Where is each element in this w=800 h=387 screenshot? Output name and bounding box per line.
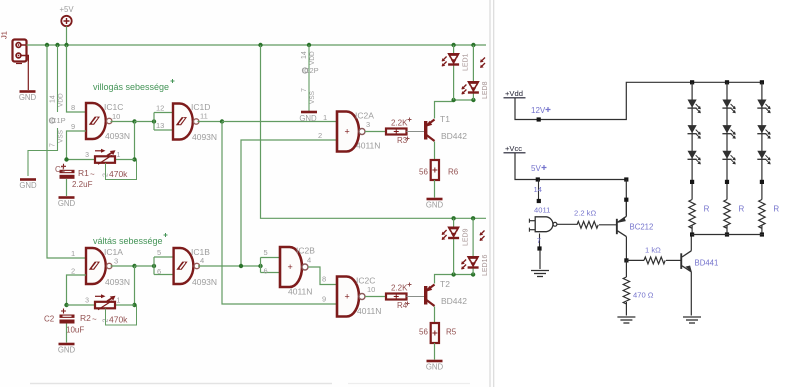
power +5V symbol xyxy=(59,5,74,26)
svg-text:4093N: 4093N xyxy=(105,131,130,141)
wiper connection R1 xyxy=(106,160,137,180)
svg-text:2.2K: 2.2K xyxy=(391,119,408,128)
svg-text:2.2K: 2.2K xyxy=(391,284,408,293)
junction LED16 bottom xyxy=(471,272,475,276)
ground right-panel gate xyxy=(531,271,549,277)
resistor R col3 xyxy=(759,200,765,229)
svg-text:12V: 12V xyxy=(531,106,546,115)
IC1B name xyxy=(191,247,210,257)
svg-text:2: 2 xyxy=(71,267,75,276)
resistor R3 2.2K xyxy=(386,129,407,135)
pin number 3 IC1A xyxy=(114,257,118,266)
svg-text:470 Ω: 470 Ω xyxy=(633,291,654,300)
LED LED8 xyxy=(462,81,490,99)
wire IC1D output xyxy=(198,121,223,123)
terminal 12V xyxy=(537,117,541,121)
pot pin 2 label xyxy=(103,173,110,177)
svg-text:11: 11 xyxy=(200,112,208,121)
ground 470 xyxy=(617,317,635,323)
junction IC1D in xyxy=(152,119,156,123)
terminal LED col2 mid xyxy=(725,180,729,184)
pot R2 pin 1 label xyxy=(117,298,121,305)
connector J1 xyxy=(0,31,28,63)
svg-text:6: 6 xyxy=(157,267,161,276)
svg-text:56: 56 xyxy=(419,328,428,337)
IC1A part value 4093N xyxy=(105,277,130,287)
label 470 Ohm xyxy=(633,291,654,300)
T1 value BD442 xyxy=(441,131,467,141)
pin number 2 IC2A xyxy=(318,131,322,140)
wire Vdd xyxy=(515,82,764,119)
wire BC212 collector down xyxy=(625,237,627,261)
wire top +5V bus xyxy=(27,44,487,46)
wire node to R1 left xyxy=(67,159,96,161)
svg-text:1: 1 xyxy=(117,298,121,305)
resistor 470 zigzag xyxy=(623,277,629,304)
svg-text:+: + xyxy=(288,262,293,272)
junction bus-railA xyxy=(45,43,49,47)
svg-text:4011N: 4011N xyxy=(356,141,380,151)
junction bus-LED8 xyxy=(471,43,475,47)
T1 name xyxy=(440,114,450,124)
LED LED9 xyxy=(442,227,470,246)
C2 name xyxy=(44,315,55,324)
svg-text:1: 1 xyxy=(323,113,327,122)
junction bus-LEDfeed xyxy=(258,43,262,47)
svg-text:IC2C: IC2C xyxy=(356,276,375,286)
svg-text:IC2A: IC2A xyxy=(355,111,374,121)
wire IC1C out to IC1D inputs xyxy=(135,121,155,123)
svg-text:R6: R6 xyxy=(448,168,459,177)
pin number 8 IC2C xyxy=(322,275,326,284)
label 4011 xyxy=(534,206,550,215)
svg-text:7: 7 xyxy=(537,236,541,245)
svg-text:14: 14 xyxy=(534,185,542,194)
resistor 2.2k zigzag xyxy=(577,221,598,228)
resistor R col1 xyxy=(689,200,695,229)
svg-text:4093N: 4093N xyxy=(192,132,217,142)
IC1P VSS pin wire xyxy=(28,128,58,176)
wire IC1C out down to R1 xyxy=(134,122,136,160)
pin number 4 IC2B xyxy=(307,256,311,265)
svg-text:R3: R3 xyxy=(397,136,408,145)
svg-text:4: 4 xyxy=(307,256,311,265)
LED D5 xyxy=(722,125,735,139)
wire Vcc to BC212 emitter xyxy=(625,180,627,216)
svg-text:T1: T1 xyxy=(440,114,450,124)
svg-text:9: 9 xyxy=(71,122,75,131)
svg-text:7: 7 xyxy=(50,143,57,147)
svg-text:5: 5 xyxy=(157,248,161,257)
svg-text:IC2P: IC2P xyxy=(302,66,319,75)
wire rail +5V to IC1A pin1 xyxy=(47,45,86,258)
svg-text:1: 1 xyxy=(117,152,121,159)
junction collector node xyxy=(624,258,628,262)
T2 value BD442 xyxy=(441,296,467,306)
svg-text:váltás sebessége: váltás sebessége xyxy=(93,236,163,246)
wire R col2 to bus xyxy=(726,225,728,234)
pin number 5 IC1B xyxy=(157,248,161,257)
IC1P label xyxy=(49,116,66,125)
wire R5 to ground xyxy=(434,343,436,360)
wire IC1A output xyxy=(111,265,135,267)
terminal LED col1 mid xyxy=(690,180,694,184)
junction IC1B in xyxy=(152,264,156,268)
junction R1 right xyxy=(132,157,136,161)
wire Vcc xyxy=(515,153,626,180)
potentiometer R2 470k xyxy=(95,294,116,310)
pin number 1 IC2A xyxy=(323,113,327,122)
LED D7 xyxy=(757,100,770,114)
wire IC1A out to IC1B inputs xyxy=(135,265,155,267)
pin number 10 xyxy=(112,112,120,121)
svg-text:BC212: BC212 xyxy=(630,223,654,232)
wire R col3 to bus xyxy=(761,225,763,234)
ground GND C2 xyxy=(58,344,76,355)
R6 name xyxy=(448,168,459,177)
transistor BC212 xyxy=(616,216,627,236)
svg-text:4: 4 xyxy=(200,256,204,265)
svg-text:8: 8 xyxy=(322,275,326,284)
svg-text:VDD: VDD xyxy=(309,51,316,65)
wire LED column 1 xyxy=(691,82,693,199)
LED D9 xyxy=(757,151,770,165)
R3 name xyxy=(397,136,410,145)
IC2A name xyxy=(355,111,374,121)
transistor T1 BD442 xyxy=(424,120,435,142)
pin number 9 IC2C xyxy=(322,295,326,304)
IC1A name xyxy=(104,247,123,257)
pot pin 3 label xyxy=(85,152,89,159)
wire BD441 emitter to ground xyxy=(690,272,692,316)
svg-text:4093N: 4093N xyxy=(105,277,130,287)
C1 value 2.2uF xyxy=(72,180,93,189)
wire LED8 column xyxy=(472,45,474,100)
wire node to R2 left xyxy=(67,304,96,306)
wire bus down to lower LED bus xyxy=(261,45,487,218)
svg-text:13: 13 xyxy=(156,121,164,130)
svg-text:LED16: LED16 xyxy=(482,254,489,276)
svg-text:GND: GND xyxy=(19,181,37,190)
junction LED16 top xyxy=(471,216,475,220)
junction LED9 top xyxy=(451,216,455,220)
svg-text:470k: 470k xyxy=(109,315,128,325)
pin 14 VDD labels IC2P xyxy=(301,51,316,65)
LED D2 xyxy=(688,125,701,139)
wire BD441 collector up xyxy=(690,235,692,251)
wire IC2A output to R3 xyxy=(365,131,386,133)
svg-text:+5V: +5V xyxy=(59,5,74,14)
svg-text:2.2 kΩ: 2.2 kΩ xyxy=(574,209,596,218)
svg-text:C1: C1 xyxy=(55,165,66,174)
svg-text:IC1A: IC1A xyxy=(104,247,123,257)
pin number 5 IC2B xyxy=(264,248,268,257)
wire IC1D out down to IC2C pin9 xyxy=(222,122,337,305)
pin number 10 IC2C xyxy=(367,285,375,294)
LED D6 xyxy=(722,151,735,165)
capacitor C2 10uF xyxy=(60,309,75,324)
svg-text:3: 3 xyxy=(85,152,89,159)
svg-text:R: R xyxy=(704,205,710,214)
transistor BD441 xyxy=(680,251,692,272)
pin number 1 IC1A xyxy=(71,249,75,258)
svg-text:1: 1 xyxy=(71,249,75,258)
svg-text:GND: GND xyxy=(426,201,444,210)
wire to BC212 base xyxy=(599,224,616,226)
junction LED8 bottom xyxy=(471,98,475,102)
svg-text:9: 9 xyxy=(322,295,326,304)
IC2C name xyxy=(356,276,375,286)
pot R2 pin 2 label xyxy=(103,319,110,323)
wire IC2B output to IC2C pin8 xyxy=(308,267,337,285)
net label villogas sebessege xyxy=(93,79,175,92)
wire gate output xyxy=(557,224,577,225)
pin number 8 xyxy=(71,103,75,112)
ground GND J1 xyxy=(19,92,37,103)
pin number 9 xyxy=(71,122,75,131)
svg-text:T2: T2 xyxy=(440,279,450,289)
svg-text:VSS: VSS xyxy=(309,90,316,104)
pin number 3 IC2A xyxy=(366,120,370,129)
panel divider xyxy=(490,0,494,387)
svg-text:+: + xyxy=(345,127,350,137)
svg-text:IC1P: IC1P xyxy=(49,116,66,125)
pin 14 VDD labels IC1P xyxy=(50,93,65,107)
nand gate IC2B xyxy=(280,247,308,287)
svg-text:6: 6 xyxy=(264,267,268,276)
junction bus-LED1 xyxy=(451,43,455,47)
junction IC1B out xyxy=(239,264,243,268)
svg-text:BD441: BD441 xyxy=(695,259,719,268)
R4 value 2.2K xyxy=(391,283,412,293)
LED D3 xyxy=(688,151,701,165)
wire IC1D out to IC2A pin1 xyxy=(222,121,337,123)
label R col3 xyxy=(773,205,779,214)
svg-text:3: 3 xyxy=(85,298,89,305)
svg-text:4011N: 4011N xyxy=(357,306,381,316)
svg-text:+Vdd: +Vdd xyxy=(505,89,523,98)
wire IC1B output xyxy=(198,265,261,267)
IC1B input bracket xyxy=(154,257,174,275)
R5 name xyxy=(446,328,457,337)
LED D1 xyxy=(688,100,701,114)
svg-text:R1: R1 xyxy=(78,168,89,178)
ground GND IC1P xyxy=(19,180,37,191)
wire LED column 2 xyxy=(726,82,728,199)
svg-text:5: 5 xyxy=(264,248,268,257)
IC2P VDD pin wire xyxy=(308,45,310,111)
svg-text:GND: GND xyxy=(19,93,37,102)
svg-text:3: 3 xyxy=(366,120,370,129)
LED D8 xyxy=(757,125,770,139)
label +Vcc xyxy=(504,144,526,153)
svg-text:GND: GND xyxy=(299,114,317,123)
ground BD441 xyxy=(683,317,701,323)
nand gate IC1B xyxy=(174,248,200,284)
resistor R5 56 xyxy=(431,323,439,343)
wire +5V to bus xyxy=(66,26,68,45)
svg-text:~: ~ xyxy=(92,315,97,324)
label R col1 xyxy=(704,205,710,214)
pin number 13 xyxy=(156,121,164,130)
pin 7 stub xyxy=(537,234,541,249)
svg-text:LED1: LED1 xyxy=(463,53,470,71)
wire IC1A out down to R2 xyxy=(134,266,136,305)
LED D4 xyxy=(722,100,735,114)
svg-text:2.2uF: 2.2uF xyxy=(72,180,93,189)
wire T1 emitter to LED node xyxy=(435,102,454,119)
IC2B part value 4011N xyxy=(288,287,312,297)
IC2B name xyxy=(296,246,315,256)
IC1D part value 4093N xyxy=(192,132,217,142)
IC1D input bracket xyxy=(154,113,173,131)
svg-text:4093N: 4093N xyxy=(192,277,217,287)
wire lower LED node xyxy=(454,274,474,276)
svg-text:BD442: BD442 xyxy=(441,296,467,306)
svg-text:LED9: LED9 xyxy=(463,228,470,246)
pin number 12 xyxy=(156,104,164,113)
R2 name xyxy=(80,313,97,324)
pin number 6 IC1B xyxy=(157,267,161,276)
R1 name xyxy=(78,168,95,179)
label R col2 xyxy=(739,205,745,214)
pin number 4 IC1B xyxy=(200,256,204,265)
junction IC1C out xyxy=(132,119,136,123)
wire 1k to BD441 base xyxy=(666,259,681,261)
wire T2 collector to R5 xyxy=(434,307,436,324)
terminal pin14 xyxy=(537,199,541,203)
wire LED16 column xyxy=(472,218,474,274)
svg-text:villogás sebessége: villogás sebessége xyxy=(93,82,169,92)
svg-text:470k: 470k xyxy=(109,169,128,179)
wire R3 to T1 base xyxy=(407,131,425,133)
resistor 1k zigzag xyxy=(644,257,665,264)
wire 470 to ground xyxy=(625,302,627,316)
wire IC2C output to R4 xyxy=(365,296,386,298)
terminal LED col3 mid xyxy=(760,180,764,184)
GND text IC2P xyxy=(299,114,317,123)
net label valtas sebessege xyxy=(93,233,168,246)
potentiometer R1 470k xyxy=(95,149,116,165)
pin number 6 IC2B xyxy=(264,267,268,276)
svg-text:R4: R4 xyxy=(397,301,408,310)
IC1C part value 4093N xyxy=(105,131,130,141)
junction IC1D out xyxy=(220,119,224,123)
C2 value 10uF xyxy=(66,326,84,335)
nand gate IC1A xyxy=(86,248,112,284)
terminal LED col1 top xyxy=(690,80,694,84)
LED LED16 xyxy=(461,254,489,276)
label 1 kOhm xyxy=(645,246,661,255)
svg-text:8: 8 xyxy=(71,103,75,112)
wire +5V to IC1C pin8 xyxy=(67,45,87,112)
junction R2 right xyxy=(132,303,136,307)
terminal LED col2 top xyxy=(725,80,729,84)
label 2.2 kOhm xyxy=(574,209,596,218)
svg-text:1 kΩ: 1 kΩ xyxy=(645,246,661,255)
wire R6 to ground xyxy=(434,180,436,198)
wire 470 down xyxy=(625,260,627,277)
svg-text:56: 56 xyxy=(419,168,428,177)
label 12V+ xyxy=(531,106,551,115)
terminal emitter node xyxy=(624,198,628,202)
resistor R col2 xyxy=(724,200,730,229)
IC1P VDD pin wire xyxy=(57,45,59,112)
wire IC1A pin2 to C2/R2 node xyxy=(67,275,87,305)
pin number 11 xyxy=(200,112,208,121)
label BC212 xyxy=(630,223,654,232)
svg-text:GND: GND xyxy=(426,363,444,372)
svg-text:IC1C: IC1C xyxy=(104,102,123,112)
wire LED9 column xyxy=(453,218,455,274)
wire LED node xyxy=(454,99,474,101)
ground GND R5 xyxy=(426,361,444,372)
wire pin7 to ground xyxy=(539,250,541,269)
svg-text:10uF: 10uF xyxy=(66,326,84,335)
svg-text:7: 7 xyxy=(301,88,308,92)
R3 value 2.2K xyxy=(391,118,412,128)
IC1D name xyxy=(191,102,210,112)
nand gate IC1D xyxy=(173,104,199,140)
nand gate IC2C xyxy=(337,277,365,317)
svg-text:10: 10 xyxy=(367,285,375,294)
wire IC1C pin9 to C1/R1 node xyxy=(67,131,87,160)
junction IC1A out xyxy=(132,264,136,268)
junction IC2B in xyxy=(258,264,262,268)
terminal Vcc right xyxy=(624,177,628,181)
svg-text:14: 14 xyxy=(301,51,308,59)
wire R4 to T2 base xyxy=(407,296,425,298)
terminal LED col3 bottom xyxy=(760,232,764,236)
label BD441 xyxy=(695,259,719,268)
wire R col1 to bus xyxy=(691,225,693,234)
wire J1 pin2 to ground xyxy=(27,62,29,91)
clipped LED arrows top xyxy=(480,58,485,68)
svg-text:5V: 5V xyxy=(531,164,541,173)
IC2P label xyxy=(302,66,319,75)
svg-text:12: 12 xyxy=(156,104,164,113)
wire LED1 column xyxy=(453,45,455,100)
terminal LED col3 top xyxy=(760,80,764,84)
pot pin 1 label xyxy=(117,152,121,159)
C1 name xyxy=(55,165,66,174)
svg-text:R: R xyxy=(773,205,779,214)
pin 7 VSS labels IC2P xyxy=(301,88,316,104)
svg-text:GND: GND xyxy=(58,199,76,208)
wire T2 emitter to LED node xyxy=(435,275,454,284)
ground GND R6 xyxy=(426,199,444,210)
transistor T2 BD442 xyxy=(424,285,435,307)
wire R2 right terminal xyxy=(115,304,135,306)
svg-text:R2: R2 xyxy=(80,313,91,323)
svg-text:J1: J1 xyxy=(0,31,9,39)
label +Vdd xyxy=(504,89,526,98)
pin 7 VSS labels IC1P xyxy=(50,129,65,147)
wire C2 to ground xyxy=(66,324,68,343)
nand gate IC1C xyxy=(86,103,112,139)
svg-text:2: 2 xyxy=(318,131,322,140)
capacitor C1 2.2uF xyxy=(60,164,75,179)
R2 value 470k xyxy=(109,315,128,325)
svg-text:IC2B: IC2B xyxy=(296,246,315,256)
clipped LED arrows bottom xyxy=(480,231,485,241)
R5 value 56 xyxy=(419,328,428,337)
wire LED bottom bus xyxy=(691,234,764,236)
svg-text:3: 3 xyxy=(114,257,118,266)
nand gate 4011 xyxy=(529,217,556,232)
IC1C name xyxy=(104,102,123,112)
wire IC2A pin2 feedback xyxy=(241,140,337,266)
